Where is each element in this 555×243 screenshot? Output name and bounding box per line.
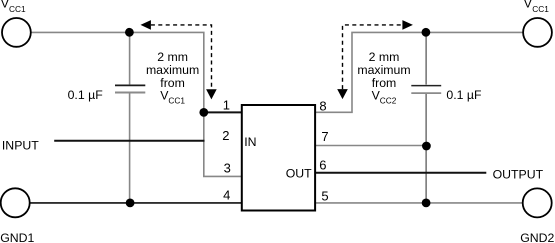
svg-text:1: 1: [223, 98, 230, 113]
svg-text:GND1: GND1: [0, 231, 34, 243]
svg-text:7: 7: [321, 129, 328, 144]
svg-text:CC1: CC1: [532, 4, 549, 14]
svg-text:6: 6: [319, 157, 326, 172]
svg-text:2: 2: [222, 128, 229, 143]
svg-text:OUT: OUT: [286, 166, 312, 180]
svg-text:0.1 µF: 0.1 µF: [68, 88, 104, 102]
svg-text:CC1: CC1: [9, 4, 26, 14]
svg-text:IN: IN: [244, 135, 256, 149]
svg-text:INPUT: INPUT: [2, 138, 39, 152]
svg-text:0.1 µF: 0.1 µF: [446, 88, 482, 102]
svg-text:8: 8: [319, 99, 326, 114]
svg-text:GND2: GND2: [520, 231, 554, 243]
svg-text:4: 4: [223, 188, 230, 203]
svg-text:OUTPUT: OUTPUT: [493, 167, 544, 181]
svg-text:3: 3: [224, 160, 231, 175]
svg-text:5: 5: [321, 188, 328, 203]
svg-text:CC1: CC1: [168, 95, 185, 105]
svg-text:CC2: CC2: [380, 95, 397, 105]
